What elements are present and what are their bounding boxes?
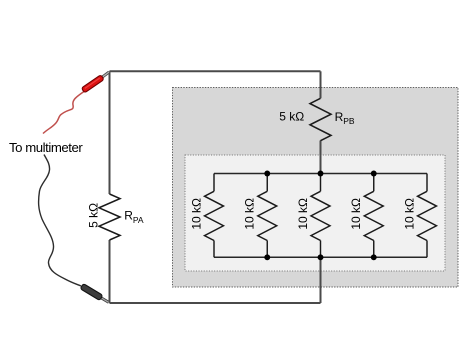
wire: top horizontal: [110, 70, 321, 72]
wire: left vertical lower segment: [109, 240, 111, 303]
wire: bottom horizontal: [110, 302, 321, 304]
black probe (negative lead): [80, 284, 109, 303]
svg-text:To multimeter: To multimeter: [9, 140, 83, 155]
red lead wire (wavy): [43, 92, 84, 134]
outer shaded box (probe B assembly): [173, 88, 459, 288]
resistor 10k #2: [258, 174, 277, 258]
svg-text:5 kΩ: 5 kΩ: [87, 203, 101, 228]
resistor 10k #4: [364, 174, 383, 258]
svg-text:10 kΩ: 10 kΩ: [190, 198, 204, 230]
wire: center vertical lower (bottom rail to bottom wire): [320, 257, 322, 303]
junction dot bottom rail right: [371, 254, 377, 260]
junction dot top rail left: [264, 171, 270, 177]
svg-text:5 kΩ: 5 kΩ: [279, 109, 304, 123]
junction dot top rail right: [371, 171, 377, 177]
junction dot top rail center: [318, 171, 324, 177]
resistor RPB zigzag: [310, 98, 331, 140]
wire: center vertical upper (top wire to RPB): [320, 71, 322, 98]
inner shaded box (resistor bank): [185, 155, 445, 271]
svg-text:10 kΩ: 10 kΩ: [349, 198, 363, 230]
wire: bottom rail of resistor bank: [214, 256, 427, 258]
resistor 10k #3: [311, 174, 330, 258]
wire: left vertical upper segment: [109, 71, 111, 194]
wire: top rail of resistor bank: [214, 173, 427, 175]
svg-text:10 kΩ: 10 kΩ: [243, 198, 257, 230]
resistor 10k #1: [205, 174, 224, 258]
resistor RPA zigzag: [99, 194, 120, 240]
red probe (positive lead): [81, 72, 109, 93]
svg-text:10 kΩ: 10 kΩ: [296, 198, 310, 230]
resistor 10k #5: [418, 174, 437, 258]
junction dot bottom rail center: [318, 254, 324, 260]
wire: center vertical middle (RPB to top rail): [320, 141, 322, 174]
svg-text:10 kΩ: 10 kΩ: [403, 198, 417, 230]
black lead wire (wavy): [39, 155, 81, 287]
junction dot bottom rail left: [264, 254, 270, 260]
